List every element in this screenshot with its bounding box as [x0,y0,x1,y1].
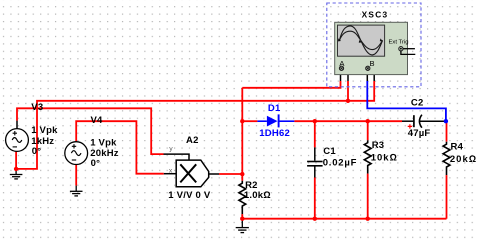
pin lead: scope A+ pin [340,70,342,81]
wire: A+ channel wire to scope [242,81,340,88]
node: C1 bottom rail junction [313,217,317,221]
svg-text:V4: V4 [91,115,104,126]
svg-text:0°: 0° [91,158,101,169]
resistor R4 [443,142,450,175]
svg-text:B: B [370,59,375,68]
wire: detector node row (D1 cathode to C2 left) [294,120,402,122]
svg-text:1 Vpk: 1 Vpk [31,125,58,136]
svg-text:20kΩ: 20kΩ [450,154,477,165]
svg-text:x: x [169,167,173,174]
node: D1 anode junction [240,119,244,123]
node: R3 bottom rail junction [366,217,370,221]
wire: R3 top lead [367,121,369,140]
svg-text:1 Vpk: 1 Vpk [90,138,117,149]
pin lead: scope A- pin [342,72,349,82]
pin lead: A2 output [209,173,219,175]
scope screen waveform B [339,31,382,49]
ground symbol under V3 [10,169,23,179]
svg-text:R2: R2 [245,180,258,191]
wire: ground net rail (V3 minus, up to scope B- pin) [16,81,374,169]
ground symbol under V4 [70,186,83,196]
waveform arrow marks [338,38,383,42]
wire: V4 bottom to ground [75,165,77,186]
wire: A2 output to R2 node [219,173,242,175]
pin lead: A2 Y input black lead [164,154,190,160]
resistor R3 [364,140,371,173]
svg-text:0°: 0° [32,146,42,157]
wire: R4 bottom to bottom rail [446,175,448,219]
ground symbol under R2 [236,219,249,233]
scope terminal B [366,66,370,70]
wire: C1 bottom to bottom rail [314,178,316,219]
source V3 (AC) [6,129,29,152]
wire: V3 plus to A2 Y input [17,108,164,154]
wire: D1 anode red segment [242,120,257,122]
svg-text:y: y [169,145,173,152]
svg-text:1DH62: 1DH62 [259,128,290,139]
resistor R2 [239,181,246,214]
svg-text:D1: D1 [268,103,281,114]
svg-text:10kΩ: 10kΩ [371,152,398,163]
source V4 (AC) [65,142,88,165]
wire: product node vertical (scope A+ / D1 anode / R2 top) [241,88,243,181]
pin lead: A2 X input black lead [164,173,177,175]
svg-text:V3: V3 [31,102,43,113]
capacitor C2 (polarized, horizontal) [408,115,422,129]
scope terminal A [339,66,343,70]
multiplier A2 [176,160,209,187]
oscilloscope screen [338,25,385,56]
pin lead: C2 right lead [420,120,446,122]
wire: V3 bottom lead to ground junction [15,152,17,169]
svg-text:R3: R3 [372,140,385,151]
svg-text:1 V/V 0 V: 1 V/V 0 V [168,190,211,201]
pin lead: scope B- pin [368,72,374,82]
svg-text:R4: R4 [451,142,464,153]
pin lead: D1 anode blue lead [257,120,267,122]
wire: scope B+ blue wire to C2 right node [367,81,446,121]
svg-text:A2: A2 [186,135,199,146]
scope screen waveform A [339,26,382,55]
diode D1 [267,114,279,127]
node: V3 minus junction [14,167,18,171]
pin lead: scope B+ pin [366,70,368,81]
node: A- to ground rail junction [346,99,350,103]
node: A2 output / R2 junction [240,172,244,176]
node: C2 right / R4 / B+ junction [444,119,448,123]
svg-text:Ext Trig: Ext Trig [389,39,409,45]
wire: V4 plus to A2 X input [76,121,164,174]
pin lead: C2 left lead [402,120,413,122]
node: R3 top junction [366,119,370,123]
wire: R2 bottom lead [241,214,243,219]
wire: bottom ground rail [242,218,446,220]
pin lead: V3 top pin [16,121,18,129]
scope Ext Trig terminal [399,47,416,55]
svg-text:C2: C2 [411,97,424,108]
svg-text:C1: C1 [323,146,336,157]
node: C1 top junction [313,119,317,123]
oscilloscope XSC3 selection box (dashed) [327,3,421,87]
pin lead: D1 cathode blue lead [279,120,294,122]
wire: scope A- down to ground rail [347,81,349,101]
svg-text:XSC3: XSC3 [362,9,389,19]
svg-text:47µF: 47µF [408,128,431,139]
capacitor C1 [307,147,323,177]
wire: R3 bottom to bottom rail [367,174,369,219]
wire: C1 top lead [314,121,316,147]
node: R2 bottom rail junction [240,217,244,221]
wire: R4 top lead [446,121,448,142]
svg-text:0.02µF: 0.02µF [323,157,358,168]
oscilloscope XSC3 body [335,22,408,74]
svg-text:1.0kΩ: 1.0kΩ [244,190,271,201]
